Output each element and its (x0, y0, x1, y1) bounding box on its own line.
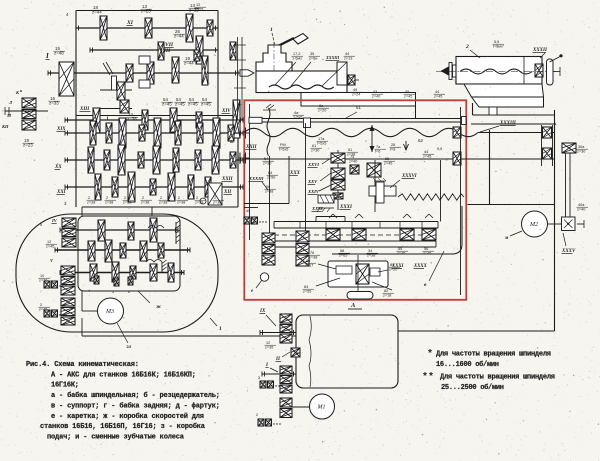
svg-text:t=5х5: t=5х5 (317, 142, 326, 146)
svg-text:XXVI: XXVI (307, 162, 319, 167)
svg-text:z=38: z=38 (265, 190, 273, 194)
svg-text:43: 43 (373, 90, 377, 94)
svg-text:1: 1 (106, 116, 109, 122)
feed shaft long (244, 141, 555, 222)
svg-text:z=38: z=38 (123, 201, 131, 205)
svg-text:z=18: z=18 (383, 294, 391, 298)
svg-text:XXXIII: XXXIII (325, 55, 340, 60)
tool post labels (275, 52, 355, 86)
AKC bottom label row (64, 196, 224, 206)
svg-text:34: 34 (368, 249, 372, 253)
right leadscrew bracket (542, 125, 553, 166)
change gear stack IX (259, 309, 296, 350)
svg-text:58: 58 (340, 249, 344, 253)
tailstock handwheel (547, 54, 563, 85)
svg-text:61: 61 (356, 105, 361, 110)
svg-text:56: 56 (424, 247, 428, 251)
svg-text:XI: XI (126, 20, 134, 26)
motor M1 in ellipse (82, 291, 131, 349)
svg-text:12: 12 (47, 240, 51, 244)
svg-text:z=40: z=40 (349, 160, 357, 164)
svg-text:16...1600 об/мин: 16...1600 об/мин (436, 360, 499, 369)
change gear stack II (258, 363, 296, 393)
svg-text:м: м (504, 236, 509, 241)
svg-text:Для частоты вращения шпинделя: Для частоты вращения шпинделя (436, 351, 551, 359)
svg-text:z=45: z=45 (46, 245, 54, 249)
svg-text:t=5мх: t=5мх (493, 45, 503, 49)
apron rack upper bar (274, 217, 438, 229)
svg-text:54: 54 (264, 157, 268, 161)
svg-text:z=45: z=45 (404, 95, 412, 99)
svg-text:1: 1 (270, 27, 273, 33)
svg-text:76: 76 (310, 251, 314, 255)
feed box (296, 315, 398, 388)
svg-text:51: 51 (348, 148, 352, 152)
svg-text:z=40: z=40 (577, 208, 585, 212)
svg-text:z=13: z=13 (344, 57, 352, 61)
svg-text:Для частоты вращения шпинделя: Для частоты вращения шпинделя (440, 373, 555, 381)
tool post body (256, 42, 292, 88)
svg-text:I: I (45, 52, 49, 60)
svg-text:М3: М3 (105, 309, 114, 315)
svg-text:6: 6 (128, 290, 130, 294)
svg-text:65: 65 (385, 157, 389, 161)
svg-text:*: * (427, 349, 433, 361)
change gear stack to motor (256, 398, 310, 426)
svg-text:84: 84 (390, 263, 394, 267)
svg-text:е - каретка; ж - коробка скоро: е - каретка; ж - коробка скоростей для (51, 412, 204, 421)
svg-text:z=30: z=30 (311, 149, 319, 153)
svg-text:**: ** (422, 371, 434, 383)
svg-text:5: 5 (112, 290, 114, 294)
svg-text:45: 45 (246, 209, 250, 213)
shaft XII upper (90, 29, 236, 64)
tool post handle (270, 27, 308, 47)
ellipse enclosure (16, 214, 222, 332)
svg-text:28: 28 (391, 143, 395, 147)
svg-text:z=76: z=76 (39, 279, 47, 283)
svg-text:z=6и: z=6и (309, 57, 317, 61)
svg-text:а - бабка шпиндельная; б - рез: а - бабка шпиндельная; б - резцедержател… (51, 391, 220, 400)
tool post slide with screw (256, 62, 359, 93)
svg-text:VIII: VIII (160, 48, 171, 54)
svg-text:82: 82 (384, 289, 388, 293)
svg-text:5: 5 (40, 223, 42, 227)
labels above apron area (293, 90, 446, 146)
svg-text:49: 49 (353, 88, 357, 92)
apron small labels row (309, 247, 445, 288)
svg-text:z=55: z=55 (303, 290, 311, 294)
svg-text:5,5: 5,5 (437, 147, 442, 151)
svg-text:44: 44 (424, 150, 428, 154)
svg-text:45: 45 (405, 90, 409, 94)
far-left change gears (1, 88, 48, 148)
feed rail 61 (249, 105, 466, 128)
svg-text:М2: М2 (529, 222, 538, 228)
svg-text:83: 83 (304, 285, 308, 289)
svg-text:44: 44 (345, 52, 349, 56)
svg-text:z=45: z=45 (423, 155, 431, 159)
gearbox zh inside ellipse (78, 216, 180, 310)
ellipse shaft 1 (60, 218, 178, 242)
view arrow A (348, 302, 362, 309)
tailstock labels (465, 40, 548, 58)
extra small labels red box (311, 143, 443, 159)
AKC gear block shaft XXI (56, 172, 243, 205)
cross slide base (301, 88, 416, 119)
belt arrow to spindle (234, 70, 254, 76)
svg-text:z=45: z=45 (434, 95, 442, 99)
svg-text:z=38: z=38 (195, 201, 203, 205)
svg-text:z=38: z=38 (213, 201, 221, 205)
footnote text block (422, 349, 555, 392)
apron lower bar (262, 235, 436, 247)
svg-text:z=25: z=25 (195, 8, 203, 12)
svg-text:2: 2 (88, 196, 90, 200)
carriage vertical edges (250, 104, 461, 295)
svg-text:2: 2 (124, 196, 126, 200)
svg-text:z=45: z=45 (384, 162, 392, 166)
carriage side bearings (453, 127, 461, 165)
motor M1 main (310, 394, 335, 419)
svg-text:IV: IV (51, 218, 58, 223)
motor M2 (504, 211, 584, 241)
apron vertical rods (244, 123, 324, 241)
AKC gear block shaft XIX (56, 118, 243, 148)
svg-text:А: А (350, 302, 356, 309)
apron pinion gears (326, 214, 436, 240)
svg-text:z=38: z=38 (159, 201, 167, 205)
svg-text:62: 62 (418, 138, 423, 143)
svg-text:z=20: z=20 (318, 109, 326, 113)
handwheel pill (347, 255, 373, 299)
svg-text:17а: 17а (318, 137, 325, 141)
wall hatch symbols (162, 220, 181, 272)
svg-text:1: 1 (219, 326, 222, 332)
base line under ellipse (82, 318, 296, 336)
svg-text:55: 55 (398, 247, 402, 251)
vertical feed rods from gearbox (234, 37, 246, 120)
spring (398, 194, 464, 200)
half-nut mechanism with spring (369, 174, 417, 203)
svg-text:17,2: 17,2 (293, 52, 300, 56)
svg-text:40а: 40а (578, 203, 585, 207)
svg-text:2: 2 (160, 196, 162, 200)
svg-text:XXIX: XXIX (311, 206, 324, 211)
svg-text:2: 2 (142, 196, 144, 200)
vertical rack screw (263, 104, 290, 156)
svg-text:КП: КП (1, 124, 9, 129)
apron gearbox block (303, 259, 401, 298)
shaft VIII with belt arrow (48, 48, 238, 88)
svg-text:10: 10 (40, 274, 44, 278)
svg-text:2: 2 (214, 196, 216, 200)
caption text block (26, 361, 220, 441)
small gears below shaft 3 (88, 276, 133, 294)
tailstock body (436, 57, 556, 85)
svg-text:2: 2 (256, 413, 258, 417)
svg-text:z=50: z=50 (267, 176, 275, 180)
svg-text:z=38: z=38 (347, 153, 355, 157)
tailstock center (441, 63, 457, 80)
svg-text:ж: ж (156, 304, 162, 310)
tailstock base (464, 84, 544, 107)
shaft XI top (66, 3, 218, 42)
svg-text:z=38: z=38 (105, 201, 113, 205)
svg-text:А - АКС для станков 16Б16К; 16: А - АКС для станков 16Б16К; 16Б16КП; (51, 371, 196, 379)
svg-text:2: 2 (178, 196, 180, 200)
label row above gear block (162, 97, 213, 107)
shaft X (65, 100, 243, 138)
ellipse shaft 3 (60, 262, 184, 282)
svg-text:подач; и - сменные зубчатые ко: подач; и - сменные зубчатые колеса (47, 432, 185, 441)
svg-text:z=20: z=20 (389, 268, 397, 272)
svg-text:t=6: t=6 (375, 150, 380, 154)
svg-text:44: 44 (435, 90, 439, 94)
svg-text:2: 2 (106, 196, 108, 200)
svg-text:Рис.4. Схема кинематическая:: Рис.4. Схема кинематическая: (26, 361, 139, 369)
svg-text:М1: М1 (317, 405, 326, 411)
svg-text:35: 35 (310, 52, 314, 56)
svg-text:z=24: z=24 (352, 93, 360, 97)
apron left gear columns (244, 209, 309, 294)
svg-text:30а: 30а (578, 145, 585, 149)
svg-text:12: 12 (196, 3, 200, 7)
main pulley I (45, 46, 74, 106)
svg-text:z=38: z=38 (309, 256, 317, 260)
svg-text:80: 80 (306, 259, 310, 263)
AKC gear block shaft XX (54, 145, 243, 175)
leadscrew wavy line (244, 121, 555, 143)
svg-text:16Г16К;: 16Г16К; (51, 382, 79, 390)
gearbox frame (speed box) (76, 11, 238, 208)
svg-text:z=35: z=35 (265, 346, 273, 350)
carriage outline (332, 206, 462, 254)
ellipse left gear stacks (39, 218, 77, 325)
svg-text:t=5х5: t=5х5 (279, 148, 288, 152)
connectors to ellipse (82, 207, 152, 216)
bed outline right (398, 103, 556, 331)
svg-text:1-5х5: 1-5х5 (293, 116, 303, 120)
svg-text:z=38: z=38 (141, 201, 149, 205)
svg-text:2: 2 (40, 303, 42, 307)
svg-text:РМ: РМ (280, 143, 286, 147)
svg-text:2: 2 (196, 196, 198, 200)
svg-text:4: 4 (88, 289, 90, 293)
vertical screw XXXV (561, 143, 588, 254)
svg-text:5,5: 5,5 (494, 40, 499, 44)
link lines AKC to red box (218, 120, 250, 187)
svg-text:XXV: XXV (307, 179, 318, 184)
svg-text:3: 3 (258, 376, 260, 380)
feed shaft left stub (240, 145, 258, 164)
svg-text:станков 16Б16, 16Б16П, 16Г16;: станков 16Б16, 16Б16П, 16Г16; з - коробк… (40, 422, 206, 431)
apron clutch stack (263, 150, 346, 210)
red highlight box (244, 100, 466, 299)
svg-text:в - суппорт; г - бабка задняя;: в - суппорт; г - бабка задняя; д - фарту… (51, 401, 220, 410)
svg-text:XXXIII: XXXIII (248, 176, 264, 181)
change gear idler (275, 348, 300, 362)
apron gears right of clutch (317, 155, 395, 212)
svg-text:z=40: z=40 (372, 95, 380, 99)
top centre label (195, 3, 207, 12)
ellipse shaft 2 (55, 240, 190, 262)
svg-text:62: 62 (230, 139, 234, 144)
svg-text:z=45: z=45 (39, 308, 47, 312)
feed vertical arrow (370, 125, 387, 154)
svg-text:25...2500 об/мин: 25...2500 об/мин (441, 383, 504, 392)
clutch cluster lower (100, 62, 138, 122)
